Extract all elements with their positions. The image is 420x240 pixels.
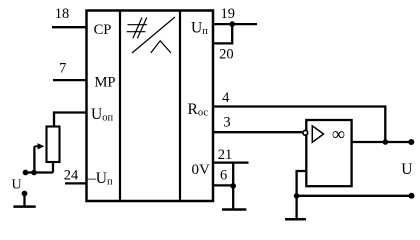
pin 3 wire [213,131,302,133]
output wire [351,141,411,143]
ground opamp [285,218,306,221]
svg-text:U: U [11,177,21,192]
svg-text:3: 3 [223,115,230,131]
junction dot wiper [31,170,37,176]
pin 19 wire [213,23,257,25]
wire to U terminal [26,171,54,173]
pin 7 wire [53,79,87,81]
loop wire 19 to 20 [213,24,232,43]
pin 4 wire Roc feedback [213,107,385,143]
junction dot pin19 [229,21,235,27]
svg-text:CP: CP [94,22,112,38]
op-amp U2 box [306,120,351,186]
svg-text:4: 4 [222,90,230,106]
pin 24 wire [65,182,87,184]
wiper wire down [33,146,35,172]
terminal dot out upper [408,139,414,145]
op-amp triangle [312,126,323,143]
Uop pin wire [54,113,87,127]
pin 6 wire [213,184,233,186]
junction dot pin6 [230,183,236,189]
inversion circle input [303,130,308,135]
DAC IC U1 box [87,11,214,202]
junction dot feedback [383,139,389,145]
svg-text:24: 24 [64,167,79,183]
junction dot opamp gnd [294,193,300,199]
terminal dot U plus [23,170,29,176]
ground wire 21-6 [232,163,234,209]
svg-text:MP: MP [94,75,115,91]
svg-text:21: 21 [218,147,233,163]
terminal dot out lower [409,193,415,199]
terminal dot U minus [22,191,28,197]
ground stub left [23,194,25,206]
svg-text:20: 20 [219,47,234,63]
svg-text:0V: 0V [192,162,211,178]
svg-text:6: 6 [220,168,227,184]
divider left column [119,11,121,202]
lower output wire [297,195,412,197]
svg-text:7: 7 [59,61,66,77]
divider right column [179,11,181,202]
pin 21 wire [213,161,249,163]
svg-text:U: U [401,161,412,178]
potentiometer R1 body [47,127,60,163]
wiper arrow [34,145,39,147]
svg-text:∞: ∞ [332,125,345,145]
op-amp noninverting input wire [297,171,307,218]
ground left [13,205,35,208]
pin 18 wire [52,26,87,28]
potentiometer bottom lead [52,163,54,173]
DAC symbol #/^ [127,17,175,53]
ground mid [222,208,246,211]
svg-text:19: 19 [220,6,235,22]
svg-text:18: 18 [55,6,70,22]
